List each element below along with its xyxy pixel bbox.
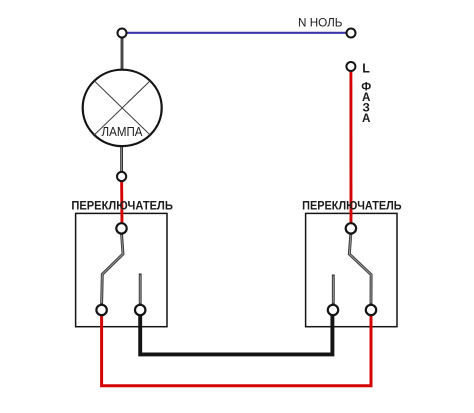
wire: black lamp bottom lead	[120, 144, 123, 177]
wire: red phase L vertical down to right switch	[349, 67, 352, 229]
terminal: neutral N supply node	[347, 29, 356, 38]
terminal: SW2 common (top)	[346, 223, 356, 233]
switch box SW2 (right ПЕРЕКЛЮЧАТЕЛЬ enclosure)	[306, 213, 397, 326]
svg-text:N НОЛЬ: N НОЛЬ	[298, 16, 343, 30]
terminal: lamp top node	[118, 29, 127, 38]
svg-text:L: L	[362, 62, 370, 76]
terminal: SW2 bottom-left	[328, 305, 338, 315]
lamp EL1 (circle with X cross)	[83, 70, 162, 146]
terminal: lamp bottom node	[117, 172, 126, 181]
switch SW2 lever (moving contact, thrown right)	[349, 233, 371, 305]
terminal: phase L supply node	[346, 62, 355, 71]
wire: blue neutral N from lamp top to right terminal	[122, 32, 351, 34]
wire: black lamp top lead	[121, 33, 124, 75]
svg-text:А: А	[362, 112, 371, 125]
terminal: SW2 bottom-right	[366, 305, 376, 315]
svg-text:ПЕРЕКЛЮЧАТЕЛЬ: ПЕРЕКЛЮЧАТЕЛЬ	[71, 198, 173, 212]
switch SW1 lever (moving contact, thrown left)	[102, 233, 123, 305]
wire: red traveler from left switch bottom-left around bottom to right switch bottom-right	[102, 310, 371, 386]
terminal: SW1 common (top)	[116, 223, 126, 233]
switch box SW1 (left ПЕРЕКЛЮЧАТЕЛЬ enclosure)	[76, 213, 167, 326]
svg-text:ЛАМПА: ЛАМПА	[102, 125, 144, 139]
terminal: SW1 bottom-left	[96, 305, 106, 315]
switch SW2 unconnected contact stub	[332, 275, 335, 306]
wire: black traveler from left switch bottom-right to right switch bottom-left	[140, 310, 332, 354]
switch SW1 unconnected contact stub	[139, 274, 142, 306]
svg-text:ПЕРЕКЛЮЧАТЕЛЬ: ПЕРЕКЛЮЧАТЕЛЬ	[302, 198, 402, 212]
terminal: SW1 bottom-right	[135, 305, 145, 315]
wire: red from lamp bottom terminal to left switch top	[120, 177, 123, 229]
